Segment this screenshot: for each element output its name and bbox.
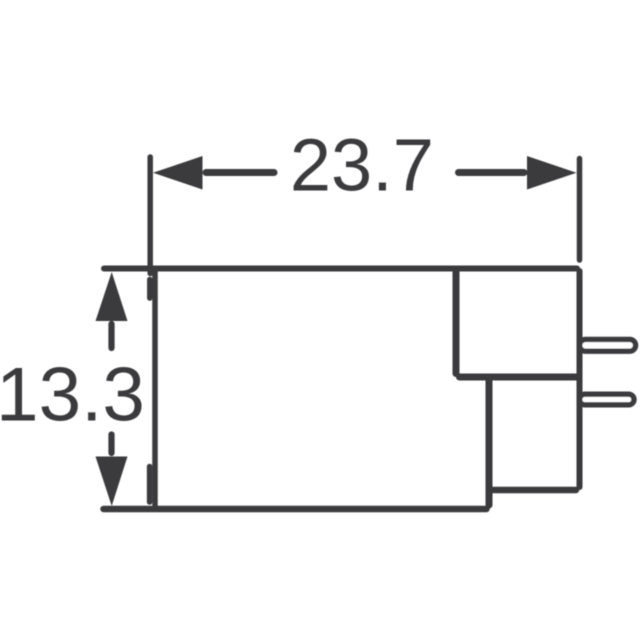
body left edge: [152, 271, 158, 506]
terminal block step line: [460, 374, 577, 381]
13.3 dimension down arrowhead: [96, 457, 128, 507]
terminal block inner vertical line A: [453, 272, 460, 374]
terminal block bottom edge: [493, 487, 577, 494]
13.3 dimension line lower shaft: [108, 435, 114, 454]
left edge top stub: [147, 280, 153, 299]
svg-text:13.3: 13.3: [0, 353, 145, 438]
pin 2 (lower right lead): [580, 394, 634, 405]
pin 1 (upper right lead): [580, 339, 636, 351]
body bottom edge with bottom extension line of 13.3 dimension: [104, 506, 487, 513]
13.3 dimension line upper shaft: [108, 324, 114, 348]
body right edge: [577, 271, 583, 487]
svg-text:23.7: 23.7: [290, 123, 434, 206]
right extension line of 23.7 dimension: [577, 159, 583, 261]
terminal block inner vertical line B: [486, 381, 493, 506]
body top edge with top extension line of 13.3 dimension: [104, 266, 577, 272]
23.7 dimension right arrowhead: [527, 156, 577, 190]
23.7 dimension line left shaft: [206, 169, 274, 176]
left extension line of 23.7 dimension: [147, 157, 153, 274]
23.7 dimension left arrowhead: [153, 156, 203, 190]
13.3 dimension up arrowhead: [96, 272, 128, 321]
left edge bottom stub: [147, 467, 153, 503]
23.7 dimension line right shaft: [459, 169, 525, 176]
